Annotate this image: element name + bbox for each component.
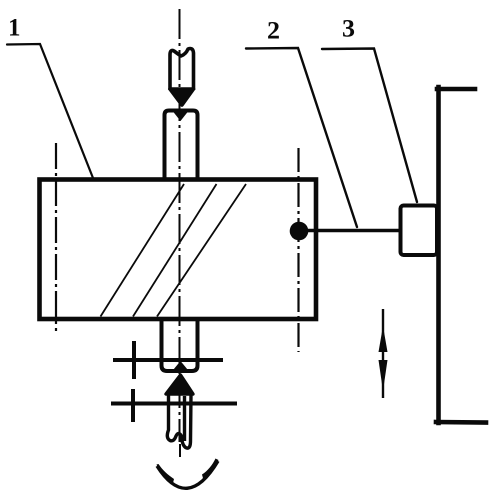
label 3 (342, 16, 355, 43)
clamp pin lower (131, 389, 135, 422)
hatch line b (133, 184, 217, 317)
leader line 1 (7, 44, 93, 178)
clamp bar upper (113, 358, 223, 362)
measurement double arrow (379, 309, 388, 398)
label 2 (267, 18, 280, 45)
main vertical centerline (179, 9, 182, 457)
svg-text:3: 3 (342, 16, 355, 43)
lower center point (166, 375, 193, 394)
indicator stand bracket (436, 87, 486, 423)
workpiece rectangle 1 (40, 180, 317, 320)
ball contact (290, 222, 309, 241)
svg-text:2: 2 (267, 18, 280, 45)
right centerline (297, 148, 299, 352)
lower adapter block (162, 320, 198, 373)
upper adapter block (165, 109, 198, 179)
svg-text:1: 1 (8, 15, 21, 42)
leader line 2 (246, 48, 357, 227)
left centerline (55, 143, 57, 331)
lower center body (broken end) (167, 394, 191, 448)
dial indicator body 3 (401, 206, 438, 256)
clamp bar lower (111, 402, 237, 406)
upper center (tailstock quill with broken end) (170, 49, 194, 106)
hatch line c (157, 184, 246, 317)
rotation arrow arc (157, 459, 219, 489)
hatch line a (101, 184, 185, 317)
label 1 (8, 15, 21, 42)
leader line 3 (322, 49, 417, 203)
clamp pin upper (132, 341, 136, 379)
indicator rod 2 (305, 229, 401, 233)
